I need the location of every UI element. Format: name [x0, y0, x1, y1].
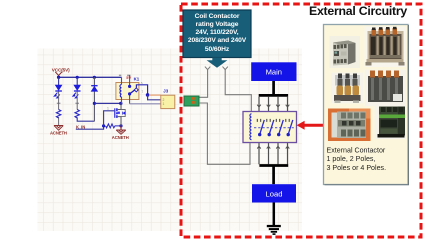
node: coil bottom / drain — [119, 102, 122, 105]
relay coil — [120, 85, 122, 98]
wire: Load stem — [272, 166, 275, 185]
relay K1 body — [116, 75, 140, 100]
wire: ground stem — [273, 203, 276, 226]
wire: R2 to K_IN net — [77, 117, 94, 121]
contact pivots — [258, 133, 290, 136]
callout note (coil rating) — [183, 10, 251, 58]
relay coil pin (top from rail) — [121, 77, 123, 103]
schematic grid sheet — [38, 49, 303, 232]
svg-text:6: 6 — [141, 81, 143, 85]
plug chevrons bottom — [257, 146, 289, 148]
wire: top bus — [259, 94, 288, 97]
LED D1 — [54, 77, 62, 98]
Main box — [251, 62, 296, 81]
svg-text:External Contactor: External Contactor — [327, 147, 386, 155]
wire: highlighted (peach) stub to J3 — [149, 94, 161, 96]
callout arrow — [207, 58, 228, 68]
power terminal VCC(5V) — [52, 68, 70, 78]
contactor photo panel — [324, 25, 409, 185]
wire: T2 to contactor coil top — [225, 70, 251, 112]
svg-text:1: 1 — [107, 107, 109, 111]
svg-text:Main: Main — [266, 67, 282, 76]
resistor R3 (gate pulldown) — [106, 124, 121, 128]
wire: terminal block to contactor coil bottom — [199, 103, 250, 164]
wire: gate riser — [104, 111, 115, 126]
plug chevrons top — [257, 105, 289, 107]
ground (earth) — [267, 225, 281, 235]
contact jaws — [257, 119, 289, 122]
transistor Q1 MOSFET — [115, 103, 126, 126]
node: gate junction — [102, 124, 105, 127]
red dashed boundary box — [181, 4, 421, 237]
resistor R1 — [56, 92, 60, 126]
photo: contactor 4 (dark grey) — [365, 70, 407, 107]
contactor coil — [250, 114, 252, 140]
terminal block TB1 (green) — [184, 96, 199, 106]
node: rail junction dots — [57, 76, 96, 79]
SCHEMATIC — [50, 68, 175, 141]
svg-text:K1: K1 — [134, 76, 140, 81]
relay switch — [128, 81, 148, 95]
mechanical link (dashed) — [254, 127, 294, 129]
svg-text:50/60Hz: 50/60Hz — [205, 46, 230, 53]
caption text — [327, 147, 387, 172]
wire: bottom bus — [259, 164, 288, 167]
photo: contactor 6 (green) — [375, 104, 407, 140]
photo: contactor 5 (orange background) — [328, 109, 371, 142]
terminal T1 — [205, 67, 210, 70]
diode D3 flyback — [91, 77, 97, 121]
node: switch out junction — [146, 93, 150, 97]
svg-text:Coil Contactor: Coil Contactor — [195, 13, 240, 20]
svg-text:3 Poles or 4 Poles.: 3 Poles or 4 Poles. — [327, 164, 387, 172]
wire: to J3 pin 2 — [148, 95, 161, 100]
svg-text:VCC(5V): VCC(5V) — [52, 68, 70, 73]
svg-text:Load: Load — [266, 190, 283, 199]
wire: Main stem — [272, 81, 275, 95]
photo: contactor 1 (small grey) — [330, 36, 361, 68]
red pointer arrow — [297, 121, 325, 130]
pole feed wires — [259, 97, 288, 165]
svg-text:ACNETH: ACNETH — [50, 131, 67, 136]
contactor box — [243, 112, 297, 143]
node: flyback junction — [93, 102, 96, 105]
node: source junction — [119, 124, 122, 127]
svg-text:ACNETH: ACNETH — [112, 135, 129, 140]
wire: K_IN net stub — [76, 126, 104, 129]
svg-text:J3: J3 — [163, 89, 168, 94]
wire: T1 to terminal block — [199, 70, 208, 98]
EXTERNAL — [181, 4, 421, 237]
relay armature pin (stub up) — [119, 75, 130, 104]
photo: contactor 2 (beige large) — [365, 27, 407, 68]
Load box — [252, 184, 296, 202]
wire: flyback node to relay coil — [94, 102, 120, 104]
terminal T2 — [223, 67, 228, 70]
LED D2 — [73, 77, 81, 98]
svg-text:1 pole, 2 Poles,: 1 pole, 2 Poles, — [327, 155, 376, 163]
resistor R2 — [75, 92, 79, 119]
wire: relay pin to J3 pin 1 — [130, 103, 161, 105]
ground ACNETH (under Q1) — [112, 126, 129, 140]
svg-text:External Circuitry: External Circuitry — [309, 4, 407, 18]
svg-text:24V, 110/220V,: 24V, 110/220V, — [195, 29, 238, 36]
contact blades — [260, 120, 293, 134]
connector J3 — [161, 89, 175, 109]
ground ACNETH (left) — [50, 126, 67, 136]
svg-text:7: 7 — [141, 90, 143, 94]
svg-text:208/230V and 240V: 208/230V and 240V — [188, 37, 247, 44]
svg-text:1: 1 — [163, 102, 165, 106]
PANEL — [324, 25, 409, 185]
svg-text:rating Voltage: rating Voltage — [196, 21, 239, 28]
photo: contactor 3 (brass coils) — [331, 73, 363, 104]
wire: VCC rail — [59, 76, 122, 78]
